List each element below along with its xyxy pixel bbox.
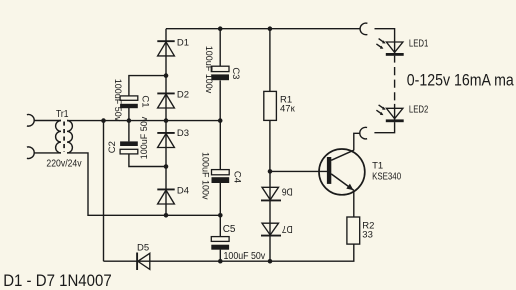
wire LED2 bottom link bbox=[374, 122, 394, 133]
svg-text:C5: C5 bbox=[223, 224, 236, 235]
transformer Tr1 core bbox=[63, 122, 65, 153]
transformer Tr1 primary winding bbox=[56, 121, 61, 153]
connector J1 primary top bbox=[27, 115, 34, 127]
svg-text:100uF 50v: 100uF 50v bbox=[224, 250, 266, 262]
resistor R1 bbox=[264, 91, 277, 120]
svg-text:100uF 100v: 100uF 100v bbox=[204, 46, 214, 94]
wire C1 branch bbox=[129, 76, 166, 96]
capacitor C3 bbox=[211, 66, 229, 80]
svg-text:D4: D4 bbox=[177, 186, 189, 197]
svg-text:100uF 50v: 100uF 50v bbox=[139, 116, 149, 159]
wire dashed LED string continuation bbox=[394, 67, 396, 104]
svg-text:Tr1: Tr1 bbox=[56, 109, 69, 120]
wire diode chain column bbox=[165, 29, 167, 216]
wire collector vertical bbox=[354, 133, 360, 150]
wire LED1 cathode short bbox=[394, 56, 396, 63]
svg-text:0-125v 16mA ma: 0-125v 16mA ma bbox=[407, 71, 514, 90]
capacitor C4 bbox=[212, 170, 230, 183]
diode D1 bbox=[157, 41, 174, 56]
diode D6 bbox=[261, 187, 281, 200]
svg-text:33: 33 bbox=[362, 229, 373, 240]
svg-text:D1 - D7 1N4007: D1 - D7 1N4007 bbox=[3, 271, 112, 290]
diode D2 bbox=[157, 93, 174, 108]
wire C4 to mid rail bbox=[219, 183, 221, 216]
capacitor C1 bbox=[120, 96, 138, 108]
transistor T1 bbox=[319, 149, 365, 195]
svg-text:47к: 47к bbox=[280, 104, 296, 115]
wire R1 to base node bbox=[269, 120, 271, 171]
LED LED2 bbox=[376, 105, 403, 122]
svg-text:D7: D7 bbox=[281, 223, 292, 234]
wire R1 column top bbox=[269, 29, 271, 92]
svg-text:LED2: LED2 bbox=[409, 105, 429, 116]
capacitor C5 bbox=[211, 237, 229, 250]
wire mid rail to C5 bbox=[219, 215, 221, 236]
wire secondary bottom to mid rail bbox=[67, 153, 220, 215]
svg-text:C3: C3 bbox=[230, 67, 241, 79]
wire primary bottom bbox=[34, 152, 61, 154]
resistor R2 bbox=[347, 217, 360, 244]
transformer Tr1 secondary winding bbox=[67, 121, 72, 153]
wire top rail bbox=[166, 28, 360, 30]
svg-text:C1: C1 bbox=[140, 95, 151, 107]
connector J3 collector side bbox=[360, 127, 367, 139]
svg-text:220v/24v: 220v/24v bbox=[46, 157, 82, 169]
connector J4 top right bbox=[360, 23, 367, 35]
wire base bbox=[270, 170, 327, 172]
wire LED2 anode bbox=[394, 104, 396, 120]
wire C2 bottom branch bbox=[129, 154, 166, 167]
svg-text:100uF 50v: 100uF 50v bbox=[113, 79, 123, 122]
diode D3 bbox=[157, 133, 174, 148]
wire primary top bbox=[34, 120, 61, 122]
diode D5 bbox=[137, 253, 150, 271]
LED LED1 bbox=[376, 39, 403, 56]
svg-text:C2: C2 bbox=[107, 141, 118, 153]
svg-text:100uF 100v: 100uF 100v bbox=[201, 152, 211, 200]
svg-text:D3: D3 bbox=[177, 128, 189, 139]
wire rail to C2 bbox=[128, 121, 130, 142]
wire C3 to rail bbox=[219, 80, 221, 120]
wire node A drop x=103.5 bbox=[103, 121, 105, 262]
svg-text:C4: C4 bbox=[231, 171, 242, 183]
wire rail to C4 bbox=[219, 121, 221, 170]
wire emitter vertical to R2 bbox=[353, 191, 355, 217]
svg-text:KSE340: KSE340 bbox=[372, 172, 401, 183]
wire bottom rail bbox=[104, 244, 354, 261]
svg-text:D1: D1 bbox=[177, 37, 189, 48]
wire D6 D7 column bbox=[269, 171, 271, 261]
capacitor C2 bbox=[120, 141, 138, 154]
diode D7 bbox=[261, 223, 281, 235]
svg-text:D2: D2 bbox=[177, 90, 189, 101]
wire C3 column top bbox=[219, 29, 221, 67]
svg-text:LED1: LED1 bbox=[409, 38, 429, 49]
svg-text:D6: D6 bbox=[281, 186, 292, 197]
svg-text:T1: T1 bbox=[372, 161, 383, 172]
connector J2 primary bottom bbox=[27, 147, 34, 159]
wire C1 to rail bbox=[128, 108, 130, 121]
wire LED1 anode bbox=[375, 29, 395, 53]
svg-text:D5: D5 bbox=[137, 243, 149, 254]
wire C5 to bottom rail bbox=[219, 250, 221, 262]
wire secondary top rail y=120.6 bbox=[67, 120, 220, 122]
diode D4 bbox=[157, 189, 174, 204]
